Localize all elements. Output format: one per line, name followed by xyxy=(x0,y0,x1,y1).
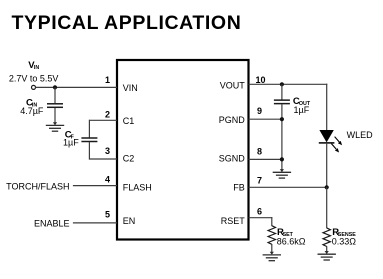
IC U1 body xyxy=(117,60,249,240)
wire pin 2 stub xyxy=(89,119,117,121)
junction VIN/CIN xyxy=(53,85,57,89)
svg-text:6: 6 xyxy=(257,207,262,217)
wire pin 9 stub xyxy=(249,118,282,120)
LED WLED xyxy=(319,130,335,143)
svg-text:FLASH: FLASH xyxy=(123,183,152,193)
ground (SGND bus) xyxy=(273,169,291,178)
svg-text:5: 5 xyxy=(105,210,110,220)
label CIN xyxy=(26,97,37,108)
wire VOUT down to WLED xyxy=(326,84,328,131)
svg-text:7: 7 xyxy=(257,176,262,186)
wire ENABLE to pin 5 xyxy=(73,222,117,224)
svg-text:0.33Ω: 0.33Ω xyxy=(332,237,357,247)
svg-text:9: 9 xyxy=(257,106,262,116)
svg-text:ENABLE: ENABLE xyxy=(34,219,70,229)
svg-text:1µF: 1µF xyxy=(63,137,79,147)
svg-text:86.6kΩ: 86.6kΩ xyxy=(277,237,306,247)
label RSENSE xyxy=(332,227,356,238)
label COUT xyxy=(293,96,311,107)
LED light emission arrows xyxy=(331,137,342,153)
ground (CIN) xyxy=(46,122,64,131)
wire COUT to SGND bus xyxy=(281,104,283,171)
wire CIN to ground xyxy=(54,108,56,125)
svg-text:VOUT: VOUT xyxy=(220,80,246,90)
svg-text:2.7V to 5.5V: 2.7V to 5.5V xyxy=(9,74,59,84)
wire RSET to ground xyxy=(271,244,273,254)
label VIN source xyxy=(28,60,39,71)
svg-text:FB: FB xyxy=(233,183,245,193)
wire RSET corner down xyxy=(271,217,273,226)
wire CF to pin 3 xyxy=(88,142,90,160)
svg-text:C1: C1 xyxy=(123,116,135,126)
svg-text:C2: C2 xyxy=(123,153,135,163)
capacitor CIN xyxy=(47,104,63,108)
ground (RSENSE) xyxy=(318,251,336,260)
svg-text:1: 1 xyxy=(105,75,110,85)
wire VOUT (pin 10) horizontal xyxy=(249,83,328,85)
wire junction to CIN xyxy=(54,87,56,103)
wire FB junction to RSENSE xyxy=(326,187,328,228)
wire VIN input to pin 1 xyxy=(36,86,118,88)
capacitor COUT xyxy=(274,100,290,104)
resistor RSENSE xyxy=(323,228,330,247)
svg-text:RSET: RSET xyxy=(221,216,246,226)
svg-text:WLED: WLED xyxy=(347,130,374,140)
label RSET xyxy=(277,227,294,238)
wire pin 6 (RSET) stub xyxy=(249,217,273,219)
wire pin 7 (FB) xyxy=(249,186,328,188)
wire RSENSE to ground xyxy=(326,246,328,253)
ground (RSET) xyxy=(263,252,281,261)
svg-text:IN: IN xyxy=(34,65,39,71)
svg-text:PGND: PGND xyxy=(219,115,246,125)
wire pin 8 stub xyxy=(249,158,282,160)
svg-text:2: 2 xyxy=(105,110,110,120)
svg-text:4: 4 xyxy=(105,175,110,185)
svg-text:8: 8 xyxy=(257,147,262,157)
svg-text:TYPICAL APPLICATION: TYPICAL APPLICATION xyxy=(12,12,242,34)
wire WLED cathode to FB junction xyxy=(326,143,328,188)
wire TORCH/FLASH to pin 4 xyxy=(73,185,117,187)
svg-text:10: 10 xyxy=(256,75,266,85)
svg-text:SGND: SGND xyxy=(219,153,246,163)
wire junction to COUT xyxy=(281,84,283,99)
junction PGND xyxy=(280,117,284,121)
svg-text:4.7µF: 4.7µF xyxy=(20,106,44,116)
svg-text:TORCH/FLASH: TORCH/FLASH xyxy=(6,182,69,192)
wire pin 3 stub xyxy=(89,158,117,160)
capacitor CF xyxy=(81,138,97,142)
svg-text:1µF: 1µF xyxy=(294,105,310,115)
svg-text:VIN: VIN xyxy=(123,83,138,93)
svg-text:EN: EN xyxy=(123,216,136,226)
label CF xyxy=(65,130,75,141)
junction VOUT/COUT xyxy=(280,82,284,86)
junction SGND xyxy=(280,157,284,161)
junction FB/RSENSE xyxy=(325,185,329,189)
node VIN input terminal xyxy=(32,85,36,89)
wire pin 2 to CF xyxy=(88,120,90,138)
resistor RSET xyxy=(268,226,275,245)
svg-text:3: 3 xyxy=(105,146,110,156)
